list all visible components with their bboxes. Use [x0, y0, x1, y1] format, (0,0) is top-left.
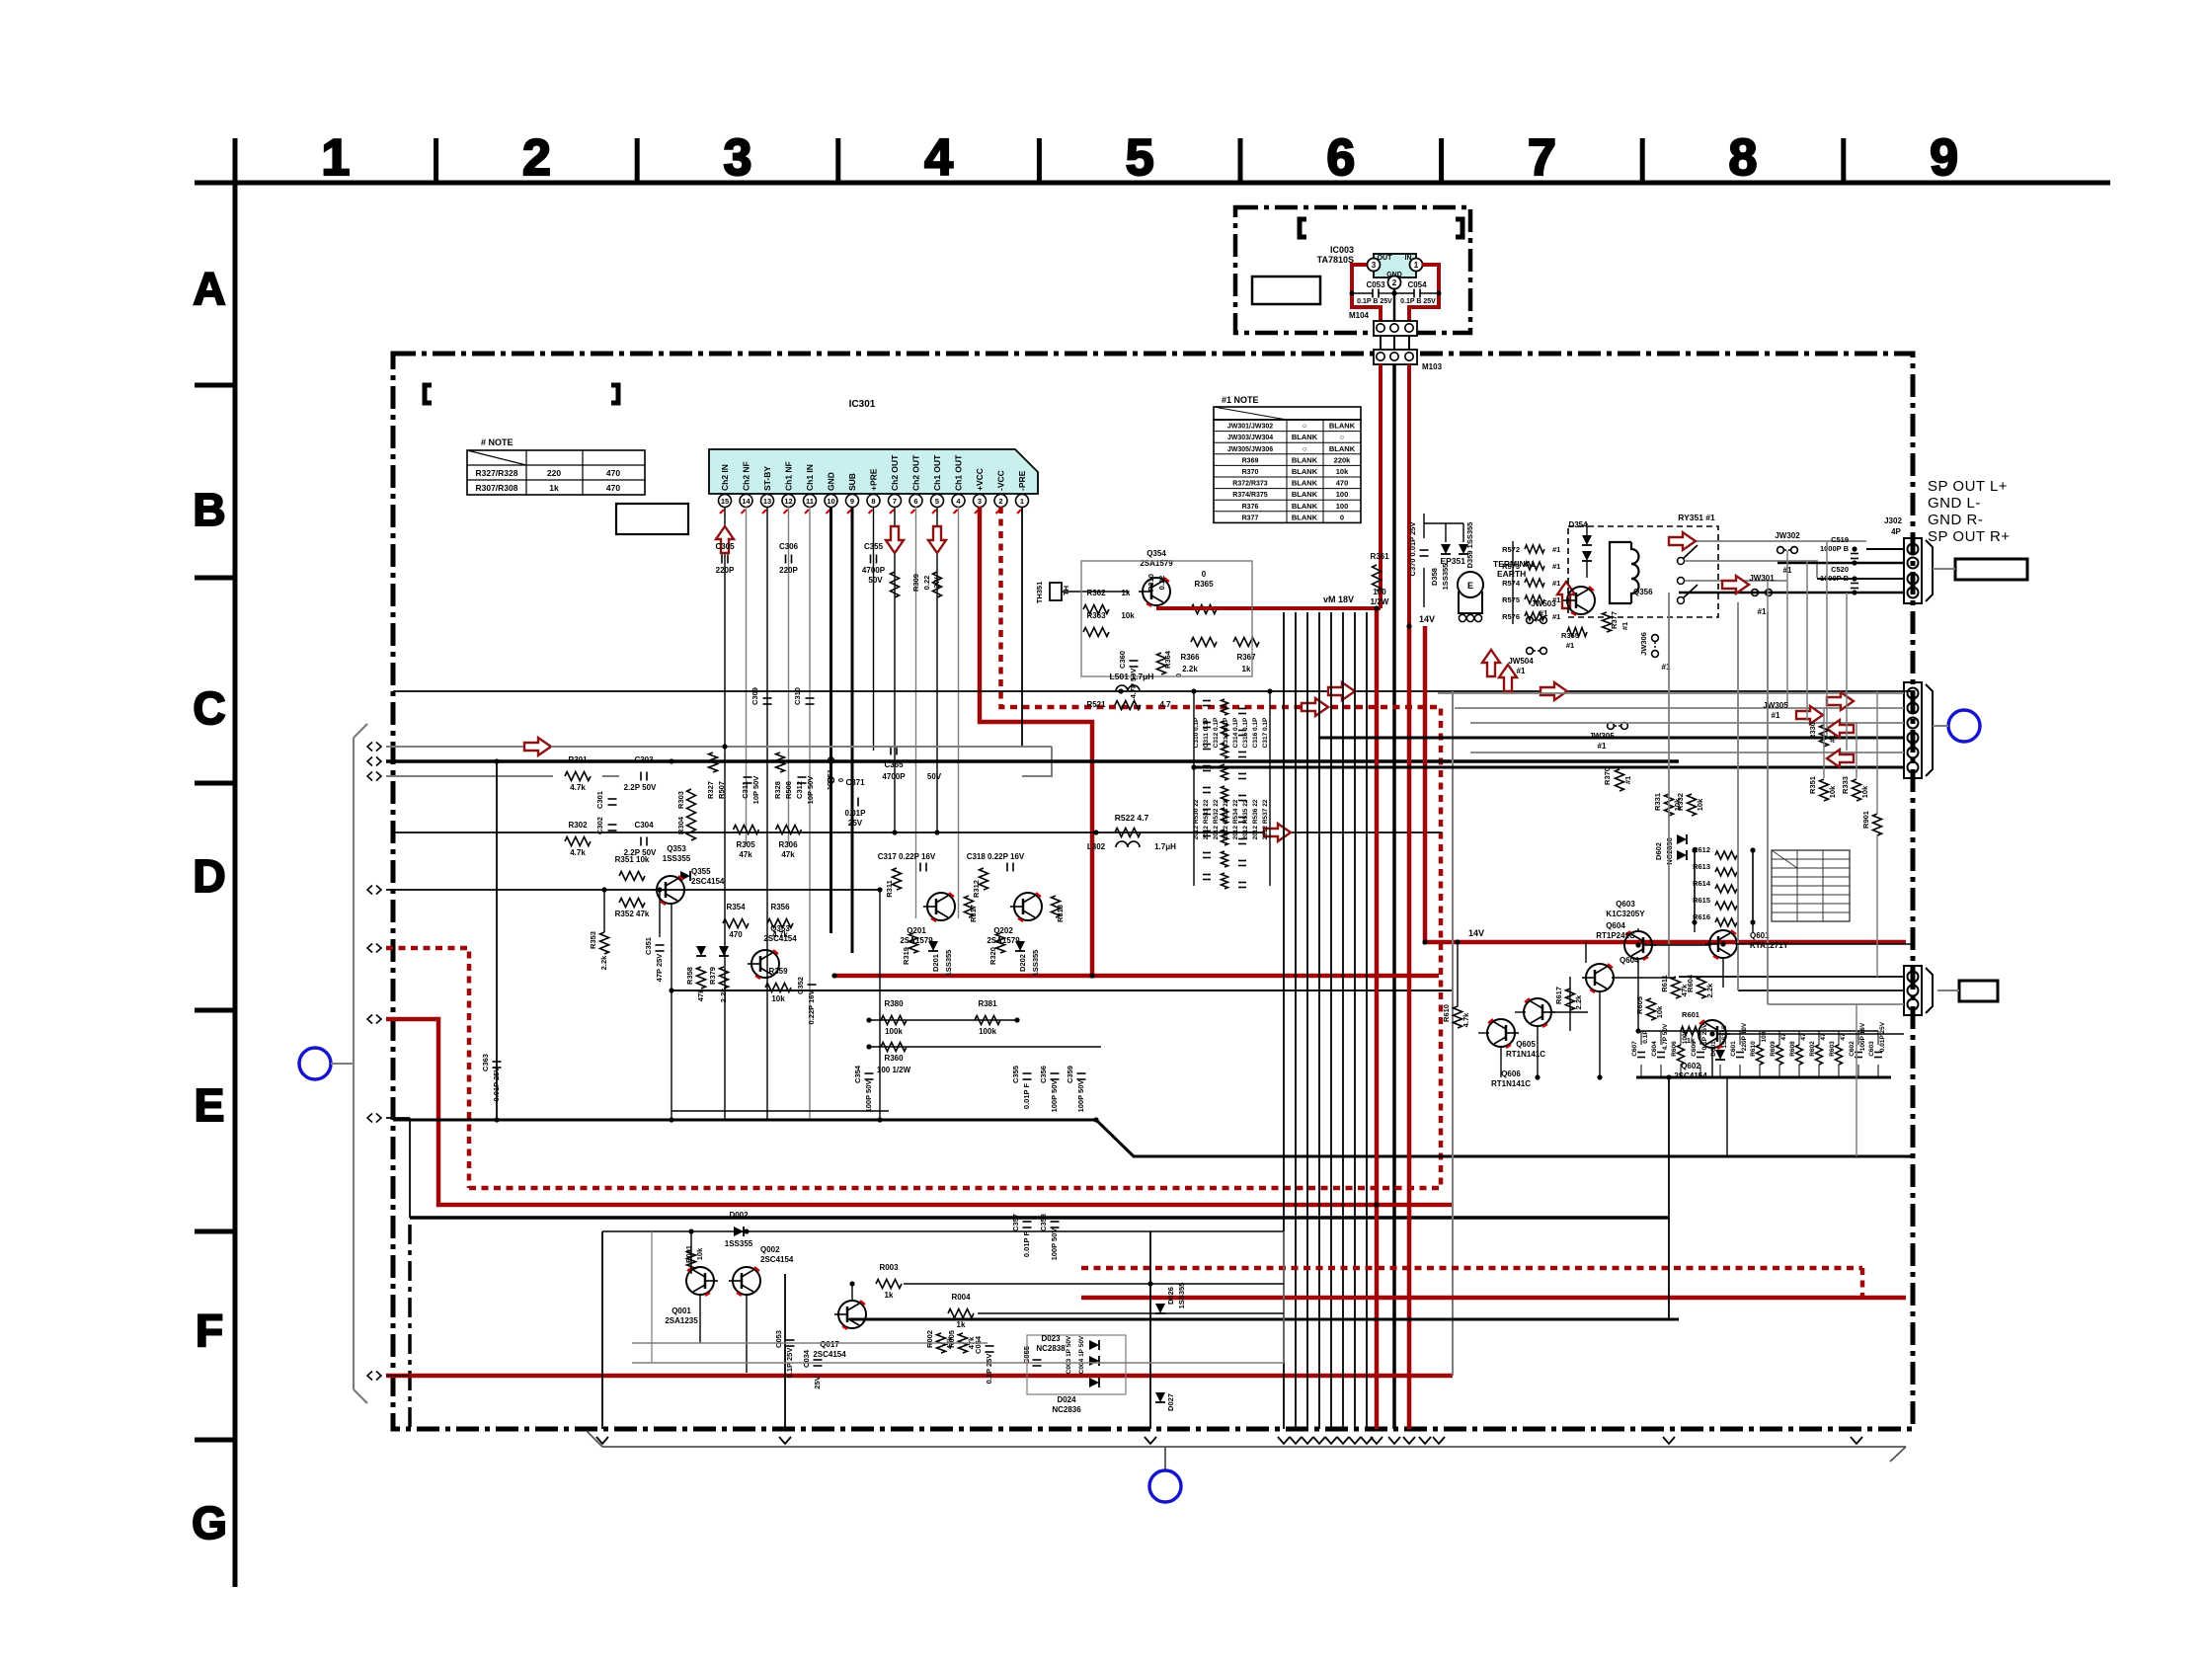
svg-text:R353: R353	[589, 931, 597, 949]
svg-text:R602: R602	[1809, 1041, 1816, 1057]
svg-text:2012 R533 22: 2012 R533 22	[1223, 799, 1229, 839]
svg-text:1: 1	[321, 129, 350, 187]
svg-text:14V: 14V	[1419, 614, 1435, 624]
svg-text:3: 3	[978, 497, 982, 506]
svg-text:R573: R573	[1502, 562, 1520, 571]
svg-text:1/2W: 1/2W	[1371, 597, 1389, 606]
svg-text:R608: R608	[1789, 1041, 1796, 1057]
svg-text:10k: 10k	[1860, 785, 1869, 798]
svg-text:-PRE: -PRE	[1017, 470, 1027, 491]
svg-text:R521: R521	[1086, 700, 1106, 709]
svg-text:R005: R005	[947, 1330, 956, 1348]
svg-text:R305: R305	[736, 840, 755, 849]
svg-text:GND R-: GND R-	[1928, 512, 1983, 528]
svg-text:14: 14	[742, 497, 750, 506]
svg-text:0.1P B 25V: 0.1P B 25V	[1400, 298, 1436, 305]
svg-text:R370: R370	[1603, 767, 1612, 785]
svg-text:C054: C054	[1407, 280, 1427, 289]
svg-text:#1: #1	[1566, 641, 1574, 650]
svg-text:R377: R377	[1242, 515, 1259, 521]
svg-text:50V: 50V	[868, 576, 883, 585]
svg-text:D358: D358	[1430, 568, 1439, 586]
svg-text:C053: C053	[1366, 280, 1385, 289]
svg-text:C053: C053	[774, 1330, 783, 1348]
svg-text:C317 0.1P: C317 0.1P	[1262, 717, 1269, 748]
svg-text:R306: R306	[778, 840, 798, 849]
svg-text:C003 1P 50V: C003 1P 50V	[1066, 1335, 1072, 1374]
svg-text:C352: C352	[796, 977, 805, 994]
svg-text:50V: 50V	[927, 772, 942, 781]
svg-text:JW302: JW302	[1775, 531, 1800, 540]
svg-text:0.1P B 25V: 0.1P B 25V	[1357, 298, 1392, 305]
svg-text:2.2P 50V: 2.2P 50V	[624, 783, 657, 792]
svg-text:9: 9	[850, 497, 854, 506]
svg-text:R614: R614	[1693, 879, 1711, 888]
svg-text:1: 1	[1414, 261, 1419, 270]
svg-text:R604: R604	[1686, 974, 1695, 992]
svg-text:1k: 1k	[1122, 589, 1131, 597]
svg-text:1.7μH: 1.7μH	[1154, 842, 1176, 851]
svg-text:3: 3	[1372, 261, 1377, 270]
svg-text:C363: C363	[481, 1054, 490, 1071]
svg-text:R364: R364	[1163, 650, 1172, 669]
svg-text:47k: 47k	[739, 850, 752, 859]
svg-text:2SC4154: 2SC4154	[813, 1350, 846, 1359]
svg-text:2.2k: 2.2k	[1574, 994, 1583, 1009]
svg-text:8: 8	[1729, 129, 1758, 187]
svg-text:R317: R317	[969, 905, 978, 922]
svg-text:100: 100	[1336, 490, 1349, 499]
svg-text:C004 1P 50V: C004 1P 50V	[1078, 1335, 1085, 1374]
svg-text:47k: 47k	[781, 850, 795, 859]
svg-text:Ch1 NF: Ch1 NF	[784, 461, 794, 491]
svg-text:M104: M104	[1349, 311, 1370, 320]
svg-text:C310 0.1P: C310 0.1P	[1193, 717, 1200, 748]
svg-text:R365: R365	[1194, 580, 1214, 589]
svg-text:R307/R308: R307/R308	[475, 483, 517, 493]
svg-text:C311: C311	[741, 781, 750, 799]
svg-text:R331: R331	[1653, 793, 1662, 811]
svg-text:100 1/2W: 100 1/2W	[877, 1066, 911, 1074]
svg-text:4.7: 4.7	[1159, 700, 1171, 709]
svg-text:2.2k: 2.2k	[1705, 983, 1714, 997]
svg-text:R574: R574	[1502, 579, 1521, 588]
svg-text:RY351 #1: RY351 #1	[1678, 513, 1715, 522]
svg-text:R004: R004	[951, 1293, 971, 1302]
svg-text:4700P: 4700P	[882, 772, 906, 781]
svg-text:TH: TH	[1062, 586, 1070, 595]
svg-text:C314 0.1P: C314 0.1P	[1232, 717, 1239, 748]
svg-text:+VCC: +VCC	[975, 468, 985, 491]
svg-text:R603: R603	[1829, 1041, 1836, 1057]
svg-text:R354: R354	[726, 903, 746, 911]
svg-text:#1: #1	[1552, 579, 1560, 588]
svg-text:10k: 10k	[1121, 611, 1135, 620]
svg-text:E: E	[1467, 581, 1473, 591]
svg-text:Ch1 OUT: Ch1 OUT	[932, 454, 942, 491]
svg-text:Q017: Q017	[820, 1340, 839, 1349]
svg-text:100k: 100k	[979, 1027, 996, 1036]
svg-text:470: 470	[1336, 479, 1349, 488]
svg-text:R360: R360	[884, 1054, 904, 1063]
svg-text:1SS355: 1SS355	[1031, 950, 1040, 977]
svg-text:GND: GND	[827, 472, 836, 491]
svg-text:47k: 47k	[696, 989, 705, 1001]
svg-text:2: 2	[1392, 278, 1397, 287]
svg-text:BLANK: BLANK	[1292, 455, 1318, 464]
svg-text:D601: D601	[1710, 1041, 1717, 1057]
svg-text:C315 0.1P: C315 0.1P	[1242, 717, 1249, 748]
svg-text:R352 47k: R352 47k	[615, 910, 650, 918]
svg-text:G: G	[192, 1497, 227, 1548]
svg-text:7: 7	[893, 497, 897, 506]
svg-text:12: 12	[784, 497, 792, 506]
svg-text:220P: 220P	[779, 566, 798, 575]
svg-text:Ch2 IN: Ch2 IN	[720, 464, 730, 491]
svg-text:Q603: Q603	[1616, 900, 1635, 909]
svg-text:IC301: IC301	[849, 399, 876, 410]
svg-text:#1: #1	[1598, 742, 1607, 751]
svg-text:C306: C306	[779, 542, 799, 551]
svg-text:R358: R358	[685, 967, 694, 985]
svg-text:A: A	[193, 263, 225, 314]
svg-text:#1: #1	[1772, 711, 1780, 720]
svg-text:C603: C603	[1868, 1041, 1875, 1057]
svg-text:R374/R375: R374/R375	[1232, 492, 1268, 499]
svg-text:R309: R309	[911, 574, 920, 592]
svg-text:R002: R002	[925, 1330, 934, 1348]
svg-text:2.2k: 2.2k	[1182, 665, 1198, 673]
svg-text:R615: R615	[1693, 896, 1710, 905]
svg-text:TH351: TH351	[1035, 582, 1044, 604]
svg-text:R613: R613	[1693, 862, 1710, 871]
svg-text:2012 R535 22: 2012 R535 22	[1242, 799, 1249, 839]
svg-text:○: ○	[1303, 444, 1307, 453]
svg-text:C312 0.1P: C312 0.1P	[1213, 717, 1220, 748]
svg-text:R327: R327	[706, 781, 715, 799]
svg-text:R359: R359	[768, 967, 788, 976]
svg-text:JW301: JW301	[1749, 574, 1775, 583]
svg-text:1: 1	[1020, 497, 1024, 506]
svg-text:1k: 1k	[885, 1291, 894, 1300]
svg-text:R370: R370	[1242, 469, 1259, 476]
svg-text:NC2838: NC2838	[1036, 1344, 1066, 1353]
svg-text:1SS355: 1SS355	[1721, 1025, 1728, 1049]
svg-text:1SS355: 1SS355	[725, 1239, 753, 1248]
svg-text:R369: R369	[1242, 457, 1259, 464]
svg-text:C360: C360	[1118, 651, 1127, 669]
svg-text:0.1P 25V: 0.1P 25V	[985, 1354, 993, 1385]
svg-text:100P 16V: 100P 16V	[1859, 1022, 1866, 1051]
svg-text:R311: R311	[885, 880, 894, 898]
svg-text:Q604: Q604	[1619, 956, 1639, 965]
svg-text:JW303/JW304: JW303/JW304	[1227, 435, 1273, 441]
svg-text:C301: C301	[595, 791, 604, 809]
svg-text:15: 15	[721, 497, 729, 506]
svg-text:1k: 1k	[1687, 1036, 1696, 1045]
svg-text:13: 13	[763, 497, 771, 506]
svg-text:10k: 10k	[1655, 1005, 1664, 1018]
svg-text:1000P B: 1000P B	[1820, 574, 1850, 583]
svg-text:10k: 10k	[695, 1247, 704, 1260]
svg-text:0.1P: 0.1P	[1642, 1030, 1649, 1044]
svg-text:4700P: 4700P	[862, 566, 886, 575]
svg-text:D201: D201	[931, 954, 940, 972]
svg-text:2SA1235: 2SA1235	[665, 1316, 698, 1325]
svg-text:2012 R536 22: 2012 R536 22	[1252, 799, 1259, 839]
svg-text:1SS355: 1SS355	[663, 854, 691, 863]
svg-text:C358: C358	[1039, 1214, 1048, 1231]
svg-text:Ch2 OUT: Ch2 OUT	[911, 454, 921, 491]
svg-text:R367: R367	[1236, 653, 1256, 662]
svg-text:#1: #1	[1552, 562, 1560, 571]
svg-text:BLANK: BLANK	[1292, 433, 1318, 441]
svg-text:#1: #1	[1620, 622, 1629, 630]
svg-text:1SS355: 1SS355	[1441, 564, 1450, 591]
svg-text:vM 18V: vM 18V	[1323, 594, 1354, 604]
svg-text:R318: R318	[1056, 905, 1065, 922]
svg-text:0.1P 25V: 0.1P 25V	[1701, 1023, 1708, 1050]
svg-text:R610: R610	[1750, 1041, 1757, 1057]
svg-text:D354: D354	[1568, 520, 1588, 529]
svg-text:10k: 10k	[771, 994, 785, 1003]
svg-text:BLANK: BLANK	[1329, 422, 1356, 431]
svg-text:L501 1.7μH: L501 1.7μH	[1110, 672, 1154, 681]
svg-text:Q353: Q353	[667, 844, 686, 853]
svg-text:0.22P 16V: 0.22P 16V	[807, 990, 816, 1025]
svg-text:D002: D002	[729, 1211, 749, 1220]
svg-text:#1: #1	[1552, 612, 1560, 621]
svg-text:R507: R507	[717, 781, 726, 799]
svg-text:Q002: Q002	[760, 1245, 780, 1254]
svg-text:2SC4154: 2SC4154	[691, 877, 725, 886]
svg-text:25V: 25V	[848, 819, 863, 828]
svg-text:R366: R366	[1180, 653, 1200, 662]
svg-text:C: C	[193, 682, 225, 734]
svg-text:10k: 10k	[1696, 798, 1704, 811]
svg-text:Q355: Q355	[691, 867, 711, 876]
svg-text:R606: R606	[1671, 1041, 1678, 1057]
svg-text:0.22: 0.22	[922, 576, 931, 591]
svg-text:C034: C034	[802, 1349, 811, 1368]
svg-text:R601: R601	[1682, 1010, 1699, 1019]
svg-text:0: 0	[836, 778, 845, 782]
svg-text:4.7k: 4.7k	[1461, 1012, 1470, 1027]
svg-text:0.01P 25V: 0.01P 25V	[1879, 1021, 1886, 1052]
svg-text:BLANK: BLANK	[1292, 490, 1318, 499]
svg-text:R363: R363	[1086, 611, 1106, 620]
svg-text:C602: C602	[1849, 1041, 1856, 1057]
svg-text:3: 3	[724, 129, 752, 187]
svg-text:C313 0.1P: C313 0.1P	[1223, 717, 1229, 748]
svg-text:100P 50V: 100P 50V	[1076, 1080, 1085, 1113]
svg-text:R351 10k: R351 10k	[615, 855, 650, 864]
svg-text:220: 220	[547, 468, 561, 478]
svg-text:6: 6	[1326, 129, 1355, 187]
svg-text:C310: C310	[793, 687, 802, 705]
svg-text:100P 50V: 100P 50V	[864, 1080, 873, 1113]
svg-text:D602: D602	[1654, 842, 1663, 860]
svg-text:EP351: EP351	[1440, 556, 1465, 566]
svg-text:470: 470	[606, 468, 620, 478]
svg-text:RT1P241C: RT1P241C	[1596, 931, 1635, 940]
svg-text:14V: 14V	[1468, 928, 1484, 938]
svg-text:JW504: JW504	[1508, 657, 1534, 666]
svg-text:R312: R312	[972, 880, 981, 898]
svg-text:2012 R532 22: 2012 R532 22	[1213, 799, 1220, 839]
svg-text:1k: 1k	[957, 1320, 966, 1329]
svg-text:BLANK: BLANK	[1292, 467, 1318, 476]
svg-text:R379: R379	[708, 967, 717, 985]
svg-text:R327/R328: R327/R328	[475, 468, 517, 478]
svg-text:0: 0	[1202, 570, 1207, 579]
svg-text:R328: R328	[773, 781, 782, 799]
svg-text:R572: R572	[1502, 545, 1520, 554]
svg-text:R381: R381	[978, 999, 997, 1008]
svg-text:25V: 25V	[813, 1376, 822, 1388]
svg-text:10k: 10k	[1336, 467, 1349, 476]
svg-text:5: 5	[935, 497, 939, 506]
svg-text:C519: C519	[1831, 535, 1849, 544]
svg-text:D026: D026	[1166, 1287, 1175, 1305]
svg-text:# NOTE: # NOTE	[481, 437, 513, 447]
svg-text:K1C3205Y: K1C3205Y	[1606, 910, 1645, 918]
svg-text:2012 R531 22: 2012 R531 22	[1203, 799, 1210, 839]
svg-text:R617: R617	[1554, 987, 1563, 1004]
svg-text:SP OUT R+: SP OUT R+	[1928, 528, 2011, 545]
svg-text:C354: C354	[853, 1065, 862, 1083]
svg-text:R376: R376	[1242, 504, 1259, 511]
svg-text:#1: #1	[1828, 735, 1837, 743]
svg-text:R351: R351	[1808, 776, 1817, 794]
svg-text:10k: 10k	[1828, 785, 1837, 798]
svg-text:SUB: SUB	[847, 473, 857, 491]
svg-text:10P 50V: 10P 50V	[806, 776, 815, 805]
svg-text:4.7k: 4.7k	[772, 930, 788, 939]
svg-text:C520: C520	[1831, 565, 1849, 574]
svg-text:C357: C357	[1011, 1214, 1020, 1231]
svg-text:11: 11	[806, 497, 814, 506]
svg-text:5: 5	[1126, 129, 1154, 187]
svg-text:OUT: OUT	[1378, 255, 1393, 262]
svg-text:BLANK: BLANK	[1292, 502, 1318, 511]
svg-text:C311 0.1P: C311 0.1P	[1203, 717, 1210, 748]
svg-text:R356: R356	[770, 903, 790, 911]
svg-text:4.7k: 4.7k	[570, 848, 586, 857]
svg-text:B: B	[193, 484, 225, 535]
svg-text:NC2836: NC2836	[1052, 1405, 1081, 1414]
svg-text:Q606: Q606	[1501, 1069, 1521, 1078]
svg-text:2: 2	[998, 497, 1002, 506]
svg-text:R576: R576	[1502, 612, 1520, 621]
svg-text:C355: C355	[1011, 1066, 1020, 1083]
svg-text:L302: L302	[1087, 842, 1106, 851]
svg-text:D359 1SS355: D359 1SS355	[1465, 522, 1474, 569]
svg-text:C305: C305	[715, 542, 735, 551]
svg-text:8: 8	[871, 497, 875, 506]
svg-text:R575: R575	[1502, 595, 1520, 604]
svg-text:R610: R610	[1442, 1004, 1451, 1022]
svg-text:1SS355: 1SS355	[944, 950, 953, 977]
svg-text:R330: R330	[1808, 722, 1817, 740]
svg-text:D: D	[193, 850, 225, 902]
svg-text:BLANK: BLANK	[1292, 479, 1318, 488]
svg-text:220P: 220P	[716, 566, 735, 575]
svg-text:C601: C601	[1730, 1041, 1737, 1057]
svg-text:2SC4154: 2SC4154	[760, 1255, 794, 1264]
svg-text:470: 470	[606, 483, 620, 493]
svg-text:C370 0.01P 25V: C370 0.01P 25V	[1408, 522, 1417, 577]
svg-text:2012 R530 22: 2012 R530 22	[1193, 799, 1200, 839]
svg-text:R303: R303	[676, 791, 685, 809]
svg-text:0.01P: 0.01P	[845, 809, 867, 818]
svg-text:0.01P F: 0.01P F	[1022, 1083, 1031, 1110]
svg-text:GND: GND	[1386, 272, 1402, 278]
svg-text:C317 0.22P 16V: C317 0.22P 16V	[878, 852, 936, 861]
svg-text:+PRE: +PRE	[869, 468, 879, 491]
svg-text:C316 0.1P: C316 0.1P	[1252, 717, 1259, 748]
svg-text:-VCC: -VCC	[996, 470, 1006, 491]
svg-text:JW305/JW306: JW305/JW306	[1227, 446, 1273, 453]
svg-text:0.01P F: 0.01P F	[1022, 1231, 1031, 1258]
svg-text:Q001: Q001	[671, 1307, 691, 1315]
svg-text:D023: D023	[1041, 1334, 1061, 1343]
svg-text:R333: R333	[1841, 776, 1850, 794]
svg-text:100: 100	[1761, 1031, 1768, 1042]
svg-text:R372/R373: R372/R373	[1232, 481, 1268, 488]
svg-text:○: ○	[1340, 433, 1345, 441]
svg-text:E: E	[195, 1079, 225, 1131]
svg-text:R003: R003	[879, 1263, 899, 1272]
svg-text:#1: #1	[1758, 607, 1767, 616]
svg-text:Ch2 NF: Ch2 NF	[742, 461, 751, 491]
svg-text:220k: 220k	[1334, 455, 1352, 464]
svg-text:Q605: Q605	[1516, 1040, 1536, 1049]
svg-text:C604: C604	[1651, 1041, 1658, 1057]
svg-text:6: 6	[913, 497, 917, 506]
svg-text:#1: #1	[1552, 595, 1560, 604]
svg-text:Ch2 OUT: Ch2 OUT	[890, 454, 900, 491]
svg-text:100P 50V: 100P 50V	[1050, 1080, 1059, 1113]
svg-text:2.2k: 2.2k	[719, 988, 728, 1002]
svg-text:1SS355: 1SS355	[1177, 1283, 1186, 1309]
svg-text:R522 4.7: R522 4.7	[1115, 813, 1149, 823]
svg-text:C318 0.22P 16V: C318 0.22P 16V	[967, 852, 1025, 861]
svg-text:R362: R362	[1086, 589, 1106, 597]
svg-text:2: 2	[522, 129, 551, 187]
svg-text:JC351: JC351	[826, 769, 834, 791]
svg-text:C607: C607	[1631, 1041, 1638, 1057]
svg-text:1000P B: 1000P B	[1820, 544, 1850, 553]
svg-text:RT1N141C: RT1N141C	[1506, 1050, 1545, 1059]
svg-text:ST-BY: ST-BY	[762, 466, 772, 491]
svg-text:R609: R609	[1770, 1041, 1777, 1057]
svg-text:JW306: JW306	[1639, 632, 1648, 656]
svg-text:R319: R319	[902, 947, 910, 965]
svg-text:#1: #1	[1623, 776, 1632, 784]
svg-text:#1 NOTE: #1 NOTE	[1222, 395, 1259, 405]
svg-text:C351: C351	[644, 937, 653, 955]
svg-text:KTA1271Y: KTA1271Y	[1750, 941, 1789, 950]
svg-text:47P 25V: 47P 25V	[655, 954, 664, 983]
svg-text:#1: #1	[1552, 545, 1560, 554]
svg-text:9: 9	[1930, 129, 1958, 187]
svg-text:100P 50V: 100P 50V	[1050, 1228, 1059, 1261]
svg-text:BLANK: BLANK	[1292, 513, 1318, 521]
svg-text:2.2k: 2.2k	[599, 955, 608, 970]
svg-text:GND L-: GND L-	[1928, 495, 1981, 512]
svg-text:4.7P 50V: 4.7P 50V	[1662, 1023, 1669, 1050]
